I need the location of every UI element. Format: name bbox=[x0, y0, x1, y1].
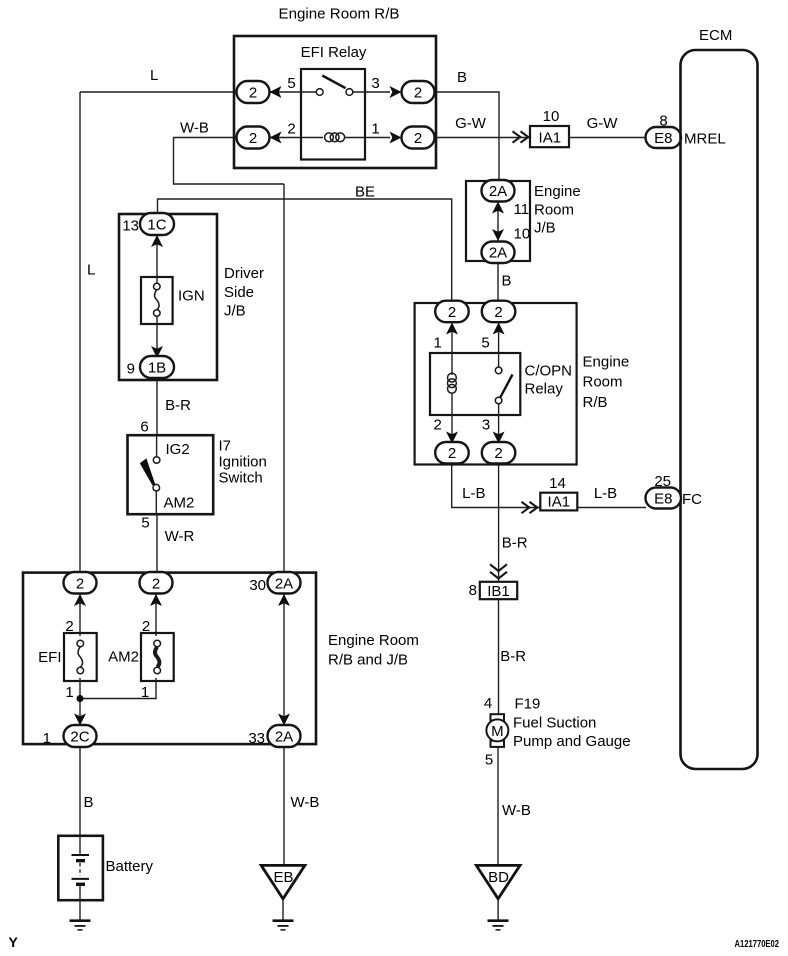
wire W-B from fuel pump pin 5 down to ground BD bbox=[497, 747, 499, 866]
svg-text:2C: 2C bbox=[70, 729, 89, 746]
svg-text:1: 1 bbox=[141, 684, 149, 701]
svg-text:Room: Room bbox=[534, 202, 574, 219]
svg-text:2: 2 bbox=[448, 304, 456, 321]
svg-text:Side: Side bbox=[224, 284, 254, 301]
box Driver Side J/B bbox=[119, 214, 217, 380]
junction connector IA1 pin10 bbox=[530, 126, 569, 147]
svg-text:F19: F19 bbox=[515, 696, 541, 713]
arrow up into oval 2A 30 bbox=[278, 594, 290, 606]
svg-text:AM2: AM2 bbox=[164, 495, 195, 512]
box Engine Room J/B bbox=[466, 181, 530, 261]
EFI relay coil bbox=[325, 133, 334, 142]
svg-text:J/B: J/B bbox=[224, 303, 246, 320]
svg-text:Switch: Switch bbox=[219, 470, 263, 487]
wire BD to ground bbox=[497, 899, 499, 920]
svg-text:30: 30 bbox=[249, 577, 266, 594]
svg-text:B: B bbox=[84, 794, 94, 811]
svg-text:B: B bbox=[502, 273, 512, 290]
svg-text:Relay: Relay bbox=[525, 381, 564, 398]
svg-text:BD: BD bbox=[488, 869, 509, 886]
box Engine Room R/B and J/B bbox=[23, 573, 316, 745]
arrow up into oval 2 EFI bbox=[74, 594, 86, 606]
svg-text:G-W: G-W bbox=[587, 115, 619, 132]
C/OPN switch contact bottom bbox=[495, 397, 502, 404]
svg-text:2: 2 bbox=[414, 130, 422, 147]
wire C/OPN switch to pin3 bbox=[498, 404, 500, 443]
box Engine Room R/B (C/OPN relay block) bbox=[415, 303, 577, 465]
svg-text:2: 2 bbox=[287, 121, 295, 138]
svg-text:EFI Relay: EFI Relay bbox=[301, 44, 367, 61]
svg-text:Y: Y bbox=[9, 934, 19, 950]
arrow up C/OPN pin1 bbox=[446, 323, 458, 335]
C/OPN relay coil bbox=[448, 373, 457, 382]
wire L horizontal from EFI relay pin5 connector to left bus bbox=[80, 91, 237, 93]
svg-text:ECM: ECM bbox=[699, 27, 732, 44]
arrow down into 1B bbox=[151, 346, 163, 358]
svg-text:10: 10 bbox=[543, 108, 560, 125]
svg-text:IB1: IB1 bbox=[487, 583, 510, 600]
connector oval 2A pin11 bbox=[482, 180, 515, 202]
wire G-W from IA1 to ECM E8 pin 8 bbox=[569, 137, 646, 139]
wire pin5 stub inside relay block bbox=[270, 91, 317, 93]
fuse IGN bbox=[141, 277, 173, 324]
wire C/OPN coil to pin2 bbox=[451, 393, 453, 444]
svg-text:B-R: B-R bbox=[502, 535, 528, 552]
connector oval 2 (EFI relay pin5) bbox=[237, 81, 270, 103]
arrow up C/OPN pin5 bbox=[493, 323, 505, 335]
connector oval 2A pin30 bbox=[268, 572, 301, 594]
connector oval 2 (EFI relay pin1) bbox=[402, 127, 435, 149]
svg-text:2: 2 bbox=[414, 84, 422, 101]
connector oval 1C pin13 bbox=[140, 213, 174, 235]
svg-text:AM2: AM2 bbox=[108, 649, 139, 666]
chevrons into IA1 pin14 bbox=[522, 502, 538, 513]
svg-text:EFI: EFI bbox=[38, 649, 61, 666]
wire battery to ground bbox=[79, 900, 81, 920]
wire B from 2C connector down to battery bbox=[79, 747, 81, 836]
connector oval 2 (C/OPN pin3) bbox=[482, 442, 516, 464]
svg-text:2: 2 bbox=[494, 445, 502, 462]
svg-text:2: 2 bbox=[249, 84, 257, 101]
svg-text:Pump and Gauge: Pump and Gauge bbox=[513, 733, 631, 750]
EFI relay switch contact right bbox=[346, 89, 353, 96]
svg-text:2A: 2A bbox=[275, 575, 293, 592]
wire B from Engine Room J/B 2A pin10 down to C/OPN relay pin5 connector bbox=[497, 263, 499, 302]
svg-text:1: 1 bbox=[43, 730, 51, 747]
ignition switch contact IG2 bbox=[153, 457, 160, 464]
svg-text:1: 1 bbox=[65, 684, 73, 701]
wire EFI fuse down to 2C oval bbox=[79, 678, 81, 725]
svg-text:IA1: IA1 bbox=[539, 130, 562, 147]
svg-text:3: 3 bbox=[482, 417, 490, 434]
EFI relay switch contact left bbox=[316, 89, 323, 96]
wire AM2 fuse down and left to junction bbox=[80, 678, 156, 699]
svg-text:Engine Room R/B: Engine Room R/B bbox=[279, 6, 400, 23]
ground (EB) bbox=[273, 919, 294, 922]
ECM block bbox=[681, 50, 758, 769]
wire BE from 1C connector up and right to C/OPN relay pin1 connector bbox=[158, 199, 452, 301]
svg-text:W-R: W-R bbox=[165, 528, 195, 545]
wire inside J/B between 2A ovals bbox=[497, 201, 499, 241]
svg-text:33: 33 bbox=[248, 730, 265, 747]
svg-text:1: 1 bbox=[371, 121, 379, 138]
svg-text:R/B and J/B: R/B and J/B bbox=[328, 652, 408, 669]
connector oval E8 pin 25 (FC) bbox=[646, 488, 682, 509]
junction dot bbox=[77, 695, 84, 702]
connector oval E8 pin 8 (MREL) bbox=[646, 127, 682, 148]
arrow left into oval pin2 bbox=[270, 132, 282, 144]
arrow right into oval pin3 bbox=[390, 86, 402, 98]
svg-text:B-R: B-R bbox=[165, 397, 191, 414]
connector oval 2A pin33 bbox=[268, 725, 301, 747]
svg-text:G-W: G-W bbox=[455, 115, 487, 132]
svg-text:5: 5 bbox=[485, 752, 493, 769]
wire EB to ground bbox=[282, 899, 284, 920]
svg-text:IGN: IGN bbox=[178, 288, 205, 305]
connector oval 2 (EFI fuse) bbox=[64, 572, 97, 594]
svg-text:B-R: B-R bbox=[500, 648, 526, 665]
connector oval 2C pin1 bbox=[64, 725, 97, 747]
box I7 Ignition Switch bbox=[128, 435, 214, 514]
svg-text:Ignition: Ignition bbox=[219, 454, 267, 471]
svg-text:R/B: R/B bbox=[583, 394, 608, 411]
svg-text:2A: 2A bbox=[489, 245, 507, 262]
svg-text:3: 3 bbox=[371, 75, 379, 92]
svg-text:2: 2 bbox=[448, 445, 456, 462]
battery bbox=[58, 836, 103, 900]
svg-text:25: 25 bbox=[654, 473, 671, 490]
chevrons into IA1 bbox=[513, 131, 529, 142]
chevrons down into IB1 bbox=[490, 564, 507, 578]
svg-text:I7: I7 bbox=[219, 438, 232, 455]
svg-text:A121770E02: A121770E02 bbox=[735, 938, 780, 950]
svg-text:5: 5 bbox=[481, 335, 489, 352]
connector oval 2 (C/OPN pin5) bbox=[482, 301, 516, 323]
svg-text:2A: 2A bbox=[275, 729, 293, 746]
svg-text:9: 9 bbox=[127, 361, 135, 378]
svg-text:11: 11 bbox=[514, 201, 530, 218]
wire pin1 stub inside relay block bbox=[345, 137, 391, 139]
connector oval 2 (EFI relay pin2) bbox=[237, 127, 270, 149]
wire W-B from EFI relay pin2 connector, left then down then right to x=284 bus bbox=[174, 138, 285, 185]
svg-text:13: 13 bbox=[122, 218, 139, 235]
wire 30 2A to 33 2A bbox=[283, 594, 285, 725]
wire C/OPN pin5 vertical bbox=[498, 322, 500, 367]
svg-text:W-B: W-B bbox=[502, 802, 531, 819]
ground triangle EB bbox=[261, 865, 305, 898]
svg-text:10: 10 bbox=[514, 226, 531, 243]
svg-text:Engine: Engine bbox=[534, 183, 581, 200]
svg-text:6: 6 bbox=[140, 419, 148, 436]
svg-text:Fuel Suction: Fuel Suction bbox=[513, 715, 596, 732]
wire L vertical left bus down to Engine Room R/B and J/B connector 2 bbox=[79, 92, 81, 573]
svg-text:1B: 1B bbox=[148, 359, 166, 376]
connector oval 2 (EFI relay pin3) bbox=[402, 81, 435, 103]
svg-text:2: 2 bbox=[76, 575, 84, 592]
wire W-R from ignition switch pin 5 down to connector 2 bbox=[156, 514, 158, 573]
ground (BD) bbox=[488, 919, 509, 922]
wire W-B from 33 2A connector down to ground EB bbox=[283, 747, 285, 865]
arrow right into oval pin1 bbox=[390, 132, 402, 144]
motor F19 fuel suction pump bbox=[491, 714, 505, 720]
svg-text:L: L bbox=[87, 262, 95, 279]
fuse EFI bbox=[64, 633, 97, 681]
arrow up into oval 2 AM2 bbox=[150, 594, 162, 606]
ground (battery) bbox=[70, 919, 91, 922]
connector oval 1B pin9 bbox=[140, 356, 174, 378]
wire B-R from 1B connector down to ignition switch pin 6 bbox=[156, 378, 158, 436]
svg-text:2: 2 bbox=[249, 130, 257, 147]
arrow down C/OPN pin3 bbox=[493, 432, 505, 444]
svg-text:MREL: MREL bbox=[684, 131, 726, 148]
svg-text:5: 5 bbox=[141, 515, 149, 532]
svg-text:Battery: Battery bbox=[106, 858, 154, 875]
svg-text:IA1: IA1 bbox=[548, 494, 571, 511]
svg-text:2A: 2A bbox=[489, 183, 507, 200]
svg-text:EB: EB bbox=[273, 869, 293, 886]
ignition switch lever wedge bbox=[140, 458, 155, 485]
C/OPN switch contact top bbox=[495, 367, 502, 374]
arrow up pin11 bbox=[492, 202, 504, 214]
fusible link AM2 bbox=[141, 633, 174, 681]
svg-text:L: L bbox=[150, 67, 158, 84]
wire L-B from C/OPN relay pin2 connector down/right to junction IA1 bbox=[452, 464, 541, 508]
wire B-R from IB1 down to fuel pump pin 4 bbox=[498, 599, 500, 714]
ground triangle BD bbox=[476, 865, 520, 898]
svg-text:5: 5 bbox=[287, 75, 295, 92]
wire pin3 stub inside relay block bbox=[353, 91, 390, 93]
svg-text:Engine: Engine bbox=[583, 354, 630, 371]
svg-text:2: 2 bbox=[152, 575, 160, 592]
svg-text:L-B: L-B bbox=[594, 485, 617, 502]
arrow down C/OPN pin2 bbox=[446, 432, 458, 444]
svg-text:M: M bbox=[491, 723, 504, 740]
wire pin2 stub inside relay block bbox=[270, 137, 324, 139]
svg-text:E8: E8 bbox=[654, 491, 672, 508]
relay C/OPN inner box bbox=[430, 353, 520, 415]
svg-text:L-B: L-B bbox=[462, 485, 485, 502]
ignition switch contact AM2 bbox=[153, 484, 160, 491]
wire G-W from EFI relay pin1 connector to junction IA1 bbox=[435, 137, 531, 139]
connector oval 2A pin10 bbox=[482, 242, 515, 264]
wire C/OPN pin1 vertical bbox=[451, 322, 453, 375]
svg-text:Driver: Driver bbox=[224, 265, 264, 282]
svg-text:IG2: IG2 bbox=[166, 441, 190, 458]
svg-text:J/B: J/B bbox=[534, 220, 556, 237]
svg-text:1: 1 bbox=[434, 335, 442, 352]
svg-text:W-B: W-B bbox=[180, 120, 209, 137]
junction connector IB1 pin8 bbox=[480, 582, 517, 599]
svg-text:B: B bbox=[457, 69, 467, 86]
wire 1C oval to IGN fuse bbox=[156, 235, 158, 283]
svg-text:1C: 1C bbox=[147, 216, 166, 233]
arrow down into 2C bbox=[74, 714, 86, 726]
wire from AM2 contact to pin 5 bbox=[155, 491, 157, 514]
wire oval2 to EFI fuse bbox=[79, 594, 81, 636]
svg-text:W-B: W-B bbox=[291, 794, 320, 811]
svg-text:FC: FC bbox=[682, 491, 702, 508]
junction connector IA1 pin14 bbox=[540, 493, 577, 511]
wire B from EFI relay pin3 connector right and down to Engine Room J/B 2A bbox=[435, 92, 500, 181]
box Engine Room R/B (EFI relay block) bbox=[234, 36, 436, 168]
svg-text:8: 8 bbox=[659, 113, 667, 130]
svg-text:4: 4 bbox=[484, 695, 492, 712]
wire B-R from C/OPN relay pin3 connector down to junction IB1 bbox=[498, 464, 500, 582]
arrow down into 33 2A bbox=[278, 714, 290, 726]
arrow up into 1C bbox=[151, 235, 163, 247]
svg-text:BE: BE bbox=[355, 184, 375, 201]
wire into IG2 contact bbox=[156, 435, 158, 457]
connector oval 2 (C/OPN pin1) bbox=[435, 301, 469, 323]
svg-text:14: 14 bbox=[549, 475, 566, 492]
wire IGN fuse to 1B oval bbox=[156, 317, 158, 359]
svg-text:2: 2 bbox=[494, 304, 502, 321]
svg-text:E8: E8 bbox=[654, 130, 672, 147]
wire oval2 to AM2 fuse bbox=[155, 594, 157, 636]
op EFI relay inner box U-EFI bbox=[301, 69, 365, 160]
svg-text:Engine Room: Engine Room bbox=[328, 632, 419, 649]
svg-text:Room: Room bbox=[583, 374, 623, 391]
connector oval 2 (AM2 fuse) bbox=[140, 572, 173, 594]
C/OPN switch lever bbox=[500, 375, 512, 398]
arrow left into oval pin5 bbox=[270, 86, 282, 98]
svg-text:8: 8 bbox=[469, 582, 477, 599]
wire L-B from IA1 to ECM E8 pin 25 bbox=[577, 507, 646, 509]
arrow down pin10 bbox=[492, 229, 504, 241]
svg-text:2: 2 bbox=[434, 417, 442, 434]
EFI relay switch lever bbox=[322, 76, 345, 89]
wire W-B vertical bus x=284 down to connector 30 2A bbox=[283, 184, 285, 573]
connector oval 2 (C/OPN pin2) bbox=[435, 442, 469, 464]
svg-text:C/OPN: C/OPN bbox=[525, 363, 573, 380]
